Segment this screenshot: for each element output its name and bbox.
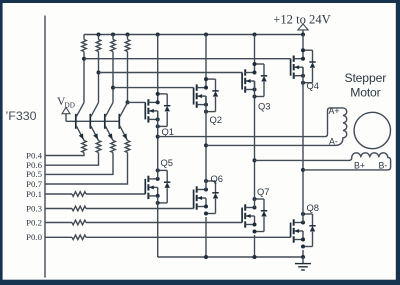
MOSFET Q5 (low side)	[145, 168, 170, 205]
svg-text:Q8: Q8	[307, 202, 320, 213]
wire+resistor: port line P0.2 through series resistor to Q7 gate	[45, 220, 242, 225]
wire: column from pull-up 1 down to NPN collector, tap dot	[82, 52, 86, 103]
resistor (gate pull-up 2)	[96, 35, 101, 52]
resistor (gate pull-up 3)	[111, 35, 116, 52]
winding A (inductor) with A+ lead from Q1/Q5 node	[158, 108, 347, 145]
wire: Q6 source to ground rail	[205, 217, 207, 257]
wire: drain feed from supply rail to Q1	[157, 35, 159, 103]
wire: gate drive line to Q4	[84, 58, 291, 60]
MOSFET Q6 (low side)	[194, 179, 219, 216]
wire: drain feed from supply rail to Q3	[254, 35, 256, 73]
svg-text:P0.5: P0.5	[26, 169, 42, 179]
svg-text:B-: B-	[379, 160, 388, 170]
wire: Q7 source to ground rail	[254, 235, 256, 257]
resistor (emitter resistor 1)	[82, 141, 87, 153]
wire: column from pull-up 4 down to NPN collector, tap dot	[126, 52, 130, 105]
wire: common source / ground rail	[158, 255, 305, 259]
MOSFET Q1 (high side)	[145, 92, 170, 128]
wire: Q5 source to ground rail	[157, 196, 159, 257]
svg-text:+12 to 24V: +12 to 24V	[273, 12, 330, 26]
transistor (NPN level shifter 3)	[105, 103, 113, 141]
transistor (NPN level shifter 4)	[119, 103, 127, 141]
wire: drain feed from supply rail to Q2	[205, 35, 207, 88]
wire: common base rail from VDD to the four NPN bases	[66, 120, 119, 122]
svg-text:Q3: Q3	[258, 101, 271, 112]
svg-text:A+: A+	[329, 106, 340, 116]
wire+resistor: port line P0.3 through series resistor to Q6 gate	[45, 206, 194, 211]
svg-text:Stepper: Stepper	[344, 71, 386, 85]
resistor (emitter resistor 3)	[111, 141, 116, 153]
svg-text:B+: B+	[354, 160, 365, 170]
junction dots on supply rail	[97, 33, 257, 37]
svg-text:Motor: Motor	[350, 86, 380, 100]
wire: gate drive line to Q2	[113, 87, 194, 89]
svg-text:Q5: Q5	[161, 157, 174, 168]
svg-text:Q2: Q2	[210, 114, 223, 125]
svg-text:P0.3: P0.3	[26, 203, 42, 213]
wire: Q4 source down through B- tap to Q8 drain	[301, 67, 305, 222]
MOSFET Q7 (low side)	[242, 197, 267, 234]
winding B (inductor) with B+ lead from Q3/Q7 node and B- lead to Q4/Q8 node	[255, 153, 391, 170]
power symbol VDD (triangle) with stem to NPN base rail	[62, 107, 70, 121]
stepper motor body (circle)	[354, 112, 390, 148]
wire+resistor: port line P0.1 through series resistor to Q5 gate	[45, 192, 145, 197]
resistor (emitter resistor 4)	[125, 141, 130, 153]
resistor (gate pull-up 1)	[82, 35, 87, 52]
transistor (NPN level shifter 2)	[90, 103, 98, 141]
MOSFET Q4 (high side)	[291, 48, 316, 84]
wire: drain feed from supply rail to Q4	[302, 35, 304, 59]
wire: gate drive line to Q1	[128, 101, 146, 103]
wire: port line P0.4 to emitter resistor 1	[45, 153, 84, 156]
MOSFET Q8 (low side)	[291, 212, 316, 249]
svg-text:Q7: Q7	[257, 186, 270, 197]
wire: column from pull-up 2 down to NPN collector, tap dot	[97, 52, 101, 103]
wire: port bus vertical line from F330	[44, 16, 46, 278]
svg-text:Q1: Q1	[162, 126, 175, 137]
svg-text:Q4: Q4	[307, 80, 320, 91]
MOSFET Q3 (high side)	[242, 62, 267, 99]
wire: Q1 source down through A+ tap to Q5 drain	[156, 111, 160, 179]
transistor (NPN level shifter 1)	[76, 103, 84, 141]
wire: +12-24V top supply rail	[84, 34, 303, 36]
svg-text:Q6: Q6	[211, 173, 224, 184]
wire+resistor: port line P0.0 through series resistor to Q8 gate	[45, 235, 291, 240]
MOSFET Q2 (high side)	[194, 77, 219, 114]
svg-text:’F330: ’F330	[6, 109, 37, 123]
svg-text:P0.1: P0.1	[26, 189, 42, 199]
svg-text:A-: A-	[329, 137, 338, 147]
ground symbol	[295, 257, 311, 270]
svg-text:P0.2: P0.2	[26, 217, 42, 227]
svg-text:P0.0: P0.0	[26, 232, 42, 242]
wire: port line P0.5 to emitter resistor 3	[45, 153, 113, 175]
svg-text:P0.4: P0.4	[26, 150, 42, 160]
power symbol +12 to 24V (triangle) with stem	[298, 24, 308, 37]
wire: Q2 source down through A- tap to Q6 drain	[204, 96, 208, 189]
wire: column from pull-up 3 down to NPN collector, tap dot	[111, 52, 115, 103]
wire: Q3 source down through B+ tap to Q7 drain	[253, 81, 257, 208]
wire: Q8 source to ground rail	[302, 250, 304, 257]
svg-text:P0.7: P0.7	[26, 179, 42, 189]
wire: port line P0.7 to emitter resistor 4	[45, 153, 128, 185]
wire: gate drive line to Q3	[99, 72, 243, 74]
resistor (emitter resistor 2)	[96, 141, 101, 153]
resistor (gate pull-up 4)	[125, 35, 130, 52]
wire: port line P0.6 to emitter resistor 2	[45, 153, 99, 166]
